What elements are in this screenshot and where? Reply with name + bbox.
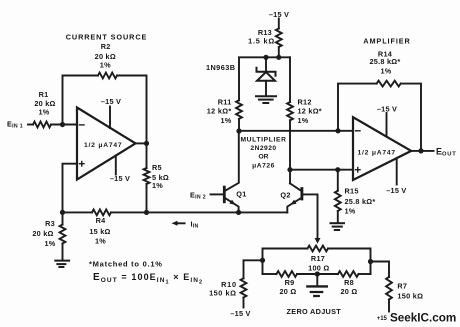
svg-text:1N963B: 1N963B (206, 63, 235, 72)
svg-text:OR: OR (258, 154, 268, 161)
resistor R3 (62, 212, 64, 224)
node output U2 (418, 148, 423, 153)
wire (239, 57, 290, 100)
svg-text:AMPLIFIER: AMPLIFIER (363, 37, 410, 46)
ground below zener (256, 95, 276, 97)
svg-text:μA726: μA726 (252, 163, 275, 170)
svg-text:1%: 1% (298, 116, 309, 125)
wire bottom rail (111, 211, 287, 213)
svg-text:R5: R5 (152, 163, 162, 172)
wire feedback rail top (63, 76, 99, 125)
resistor R11 (236, 100, 242, 119)
svg-text:+15: +15 (377, 316, 388, 322)
svg-text:1/2 μA747: 1/2 μA747 (358, 149, 396, 156)
diode zener 1N963B (265, 57, 267, 71)
svg-text:15 kΩ: 15 kΩ (89, 227, 110, 236)
node R11 bottom junction (236, 128, 241, 133)
resistor R8 (338, 271, 359, 277)
svg-text:1%: 1% (38, 108, 49, 117)
zero adjust network top rail (263, 249, 308, 275)
wire bottom rail (63, 211, 93, 213)
resistor R2 (98, 73, 117, 79)
svg-text:1%: 1% (95, 236, 106, 245)
svg-text:*Matched to 0.1%: *Matched to 0.1% (89, 259, 163, 268)
svg-text:20 kΩ: 20 kΩ (32, 229, 53, 238)
wire output EOUT (411, 150, 433, 152)
node output U1 (144, 141, 149, 146)
wire Q2 base to wiper (302, 194, 318, 239)
node Q1 emitter junction (236, 210, 241, 215)
svg-text:Q2: Q2 (280, 190, 290, 199)
node zener junction (263, 55, 268, 60)
svg-text:12 kΩ*: 12 kΩ* (207, 106, 232, 115)
resistor R9 (277, 271, 298, 277)
ground below center tap (316, 274, 318, 286)
wire left stub (244, 260, 263, 278)
svg-text:1/2 μA747: 1/2 μA747 (84, 142, 122, 149)
wire right stub (371, 262, 390, 278)
svg-text:MULTIPLIER: MULTIPLIER (240, 137, 286, 144)
potentiometer R17 (308, 246, 329, 252)
wire (146, 143, 148, 168)
node bottom-left junction (60, 210, 65, 215)
resistor R7 (386, 277, 392, 300)
svg-text:SeekIC.com: SeekIC.com (390, 312, 456, 325)
node Q2 collector junction (287, 167, 292, 172)
node center tap (315, 271, 320, 276)
node feedback junction (335, 128, 340, 133)
wire plus rail to amplifier (290, 169, 353, 171)
svg-text:150 kΩ: 150 kΩ (209, 288, 236, 297)
svg-text:1%: 1% (100, 60, 111, 69)
wire (359, 273, 371, 275)
svg-text:150 kΩ: 150 kΩ (397, 291, 423, 300)
node right junction (368, 259, 373, 264)
svg-text:Q1: Q1 (236, 190, 246, 199)
svg-text:R17: R17 (311, 254, 325, 263)
svg-text:25.8 kΩ*: 25.8 kΩ* (345, 197, 376, 206)
resistor R13 (276, 29, 282, 48)
svg-text:25.8 kΩ*: 25.8 kΩ* (370, 57, 401, 66)
svg-text:1%: 1% (345, 207, 356, 216)
op-amp U1 (77, 108, 136, 180)
wire feedback loop (338, 84, 377, 131)
wire minus rail to amplifier (239, 130, 353, 132)
svg-text:2N2920: 2N2920 (250, 145, 276, 152)
svg-text:12 kΩ*: 12 kΩ* (298, 106, 322, 115)
power -15V bottom U1 (115, 156, 117, 175)
op-amp U2 (353, 117, 411, 180)
node R13 junction (276, 55, 281, 60)
resistor R14 (377, 81, 401, 87)
svg-text:1%: 1% (220, 116, 231, 125)
wire (117, 76, 147, 144)
svg-text:R1: R1 (39, 90, 49, 99)
svg-text:–15 V: –15 V (110, 174, 130, 183)
svg-text:R7: R7 (397, 282, 407, 291)
resistor R15 (337, 170, 339, 191)
svg-text:R8: R8 (344, 278, 354, 287)
svg-text:R4: R4 (96, 216, 107, 225)
svg-text:R9: R9 (285, 278, 295, 287)
svg-text:R3: R3 (45, 219, 55, 228)
transistor Q2 (300, 189, 303, 200)
resistor R1 (33, 122, 51, 128)
svg-text:ZERO ADJUST: ZERO ADJUST (287, 307, 342, 316)
svg-text:1%: 1% (152, 181, 163, 190)
svg-text:1%: 1% (380, 66, 391, 75)
arrow IIN (172, 221, 178, 226)
node R15 junction (335, 167, 340, 172)
svg-text:R12: R12 (298, 97, 312, 106)
ground below R15 (331, 222, 345, 224)
wire (146, 184, 148, 212)
svg-text:20 Ω: 20 Ω (280, 287, 297, 296)
svg-text:–15 V: –15 V (230, 309, 250, 318)
wire input (28, 124, 33, 126)
svg-text:R15: R15 (345, 186, 359, 195)
svg-text:1.5 kΩ: 1.5 kΩ (248, 37, 275, 46)
resistor R12 (289, 57, 291, 102)
wire top node rail (238, 119, 240, 131)
wire to op-amp minus (51, 124, 77, 126)
wire (401, 84, 421, 151)
wire plus input (63, 164, 78, 213)
svg-text:–15 V: –15 V (386, 186, 406, 195)
svg-text:–15 V: –15 V (101, 97, 121, 106)
wire lower rail (263, 273, 277, 275)
wire (297, 273, 338, 275)
svg-text:1%: 1% (44, 239, 55, 248)
svg-text:R11: R11 (218, 97, 232, 106)
svg-text:100 Ω: 100 Ω (308, 263, 329, 272)
svg-text:R2: R2 (101, 42, 111, 51)
resistor R5 (144, 168, 150, 184)
node left junction (260, 258, 265, 263)
wire output U1 (136, 142, 147, 144)
ground below R3 (55, 260, 69, 262)
node R5 rail junction (144, 210, 149, 215)
wire EIN2 to Q1 base (211, 193, 224, 195)
transistor Q1 (223, 187, 226, 202)
svg-text:20 Ω: 20 Ω (341, 287, 358, 296)
resistor R4 (92, 210, 111, 216)
svg-text:CURRENT SOURCE: CURRENT SOURCE (66, 32, 148, 41)
power -15V bottom U2 (396, 158, 398, 184)
node junction input (60, 122, 65, 127)
resistor R10 (241, 278, 247, 297)
